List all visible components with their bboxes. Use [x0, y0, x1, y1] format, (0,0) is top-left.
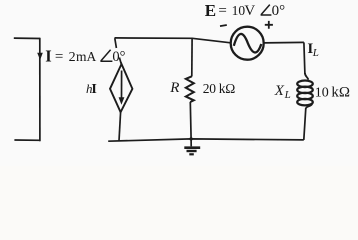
wire: bottom wire — [108, 139, 304, 141]
angle symbol of E label — [261, 5, 272, 15]
svg-text:X: X — [274, 83, 285, 99]
wire: right vertical bottom lead — [304, 108, 306, 140]
dependent current source hI (diamond) — [110, 64, 132, 112]
sine wave inside source — [234, 34, 261, 53]
svg-text:0°: 0° — [272, 3, 286, 19]
inductor XL coil — [297, 73, 313, 109]
svg-text:10: 10 — [315, 85, 329, 100]
ground — [184, 139, 200, 154]
svg-text:=: = — [55, 49, 63, 65]
wire: from source circle to top-right corner — [264, 41, 304, 44]
svg-text:=: = — [218, 3, 226, 19]
junction dot at ground node — [189, 137, 192, 140]
ac voltage source E (circle) — [231, 27, 264, 60]
angle symbol of I label — [100, 50, 112, 61]
current direction arrow on left bracket — [37, 53, 43, 60]
wire: right vertical top lead — [304, 42, 305, 74]
wire: top wire from loop corner to source circle — [115, 38, 231, 43]
svg-text:mA: mA — [76, 49, 97, 64]
svg-text:L: L — [284, 89, 291, 101]
svg-text:20 kΩ: 20 kΩ — [203, 81, 235, 96]
svg-text:L: L — [312, 47, 319, 59]
plus sign (source polarity) — [265, 21, 273, 29]
svg-text:kΩ: kΩ — [331, 84, 350, 100]
svg-text:V: V — [244, 3, 255, 19]
svg-text:E: E — [205, 1, 216, 20]
arrow inside diamond — [121, 71, 123, 99]
svg-text:I: I — [45, 46, 51, 65]
svg-text:0°: 0° — [112, 49, 125, 65]
minus sign (source polarity) — [220, 25, 227, 26]
wire: corner stub down toward diamond — [115, 38, 117, 48]
wire: resistor bottom lead — [189, 102, 192, 139]
wire: left bracket bottom stub — [14, 139, 40, 141]
svg-text:R: R — [169, 80, 179, 96]
svg-text:10: 10 — [232, 3, 246, 18]
wire: resistor branch top lead — [191, 38, 193, 76]
wire: left bracket top stub — [14, 37, 40, 39]
svg-text:2: 2 — [69, 50, 76, 65]
svg-text:I: I — [91, 82, 96, 97]
wire: connector above diamond — [119, 58, 121, 65]
wire: diamond bottom lead — [119, 112, 121, 141]
wire: left bracket vertical — [39, 38, 41, 142]
resistor R zigzag — [186, 76, 194, 102]
